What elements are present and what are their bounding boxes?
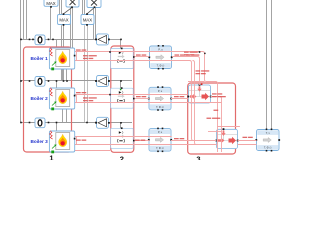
display D1 xyxy=(35,35,45,45)
triangle block T1 xyxy=(95,34,110,45)
pipe boiler2 riser xyxy=(74,90,76,106)
sensor box far right (T,v) xyxy=(255,129,280,152)
valve/meter box row1 (in group 2) xyxy=(111,48,134,69)
value label boiler1 return xyxy=(83,55,97,56)
value label row2 mid xyxy=(136,96,146,97)
svg-text:P, u: P, u xyxy=(158,89,163,93)
MAX block M1 xyxy=(44,0,58,8)
pump 1 xyxy=(187,84,211,103)
pipe pump2 top feeds xyxy=(217,126,240,128)
pipe supply row1 long xyxy=(75,52,218,153)
group rect 1 (boilers) xyxy=(24,47,72,152)
boiler unit 1 xyxy=(31,48,76,71)
pipe return row1 to pump2 xyxy=(75,61,217,141)
pipe header stub xyxy=(188,81,205,83)
svg-text:3: 3 xyxy=(196,155,200,160)
wire MAX2 outputs down xyxy=(62,25,64,81)
value label sensor right xyxy=(243,137,253,138)
svg-text:T, Φ ∅: T, Φ ∅ xyxy=(156,105,165,109)
wire bundle left xyxy=(21,0,27,123)
pipe stub row2 xyxy=(134,98,150,100)
pipe pump2 out xyxy=(238,140,257,142)
MAX block M2 xyxy=(58,13,71,26)
green connector minibox2 xyxy=(120,89,122,91)
value label group3 low2 xyxy=(207,118,221,119)
wire triangle1 output xyxy=(109,39,122,48)
wire boiler3 enable stub xyxy=(56,123,58,132)
svg-text:Boiler 3: Boiler 3 xyxy=(31,139,49,144)
wire pair into MAX2 top xyxy=(60,0,62,15)
MAX block M3 xyxy=(81,13,94,26)
multiply block XA xyxy=(66,0,79,8)
triangle block T2 xyxy=(95,76,110,87)
svg-text:Boiler 1: Boiler 1 xyxy=(31,56,49,61)
wire boiler1 enable stub xyxy=(56,39,58,48)
wire triangle2 output xyxy=(109,81,133,89)
wire boiler2 enable stub xyxy=(56,81,58,88)
pipe B3 out to pump2 xyxy=(171,140,216,142)
wire row3 horizontal xyxy=(21,122,97,124)
value label row1 mid xyxy=(136,54,146,55)
pipe return row1b to sensor right xyxy=(193,61,217,145)
wire row1 horizontal xyxy=(21,39,97,41)
value label boiler1 supply xyxy=(76,49,86,50)
triangle block T3 xyxy=(95,117,110,128)
valve/meter box row2 (in group 2) xyxy=(111,87,134,108)
value label boiler2 return xyxy=(83,97,97,98)
value label group3 mid xyxy=(196,70,210,71)
wire pair multiplyB down xyxy=(94,8,96,40)
sensor box B2 xyxy=(148,86,172,110)
pump 2 xyxy=(215,128,238,148)
boiler unit 3 xyxy=(31,131,76,154)
wire row2 horizontal xyxy=(21,80,97,82)
svg-text:T, Φ ∅: T, Φ ∅ xyxy=(156,146,165,150)
multiply block XB xyxy=(87,0,101,8)
pipe return row3 long xyxy=(75,144,217,146)
valve/meter box row3 (in group 2) xyxy=(111,127,134,148)
svg-text:2: 2 xyxy=(120,155,124,160)
pipe boiler3 supply xyxy=(75,136,172,138)
pipe boiler1 riser xyxy=(74,50,76,67)
wire MAX3 outputs down xyxy=(85,25,88,122)
junction dots pipes xyxy=(109,51,205,141)
pipe stub row3 xyxy=(134,140,150,142)
svg-text:MAX: MAX xyxy=(83,18,92,23)
svg-text:P, u: P, u xyxy=(158,130,163,134)
pipe stub row1 xyxy=(134,56,150,58)
sensor box B3 xyxy=(148,128,172,153)
svg-text:T, Φ ∅: T, Φ ∅ xyxy=(157,64,166,68)
svg-text:T, v: T, v xyxy=(266,131,271,135)
value label boiler3 supply xyxy=(76,140,86,141)
boiler unit 2 xyxy=(31,88,76,111)
pipe boiler2 supply xyxy=(75,94,188,96)
svg-text:1: 1 xyxy=(49,154,53,160)
svg-text:MAX: MAX xyxy=(46,1,55,6)
sensor box B1 xyxy=(148,45,172,70)
wire boiler1 bottom stubs xyxy=(63,69,67,81)
value label row3 mid xyxy=(135,140,145,141)
svg-text:P, u: P, u xyxy=(158,48,163,52)
value label row1 right xyxy=(175,54,200,55)
value label row2 right xyxy=(174,96,184,97)
value label group3 low1 xyxy=(214,110,219,111)
wire diagonal multiplyA to MAX2 xyxy=(64,7,73,13)
pipe B1 out to pump1 top xyxy=(172,57,200,86)
pipe boiler3 riser xyxy=(74,133,76,149)
pipe boiler2 return xyxy=(75,102,222,104)
pipe return row1b part2 xyxy=(238,144,257,146)
pipe bottom return xyxy=(75,150,111,152)
value label pump1 out xyxy=(212,93,222,94)
wire triangle3 output xyxy=(109,123,133,129)
group rect 3 (pumps) xyxy=(188,83,236,154)
wire pair into MAX3 top xyxy=(83,0,85,15)
svg-text:Boiler 2: Boiler 2 xyxy=(31,96,49,101)
junction dots row1 xyxy=(20,39,122,41)
junction dots row2 xyxy=(20,80,122,82)
pipe B2 out to pump1 xyxy=(171,98,189,100)
group rect 2 (distribution) xyxy=(111,46,134,152)
junction dots row3 xyxy=(20,122,122,124)
svg-text:MAX: MAX xyxy=(59,18,68,23)
wire MAX1 output down xyxy=(50,7,52,39)
value label boiler2 supply xyxy=(76,92,86,93)
value label supply bend xyxy=(184,52,198,53)
display D2 xyxy=(35,77,45,87)
wire boiler2 bottom stubs xyxy=(63,109,67,123)
svg-text:T, Φ ∅: T, Φ ∅ xyxy=(264,146,273,150)
value label row3 right xyxy=(174,138,184,139)
wire diagonal multiplyB to MAX3 xyxy=(87,7,95,13)
display D3 xyxy=(35,118,45,128)
pipe pump1 out down xyxy=(211,97,222,153)
wire pair multiplyA down xyxy=(71,7,73,48)
wire pair to sensor box far right xyxy=(267,0,272,130)
